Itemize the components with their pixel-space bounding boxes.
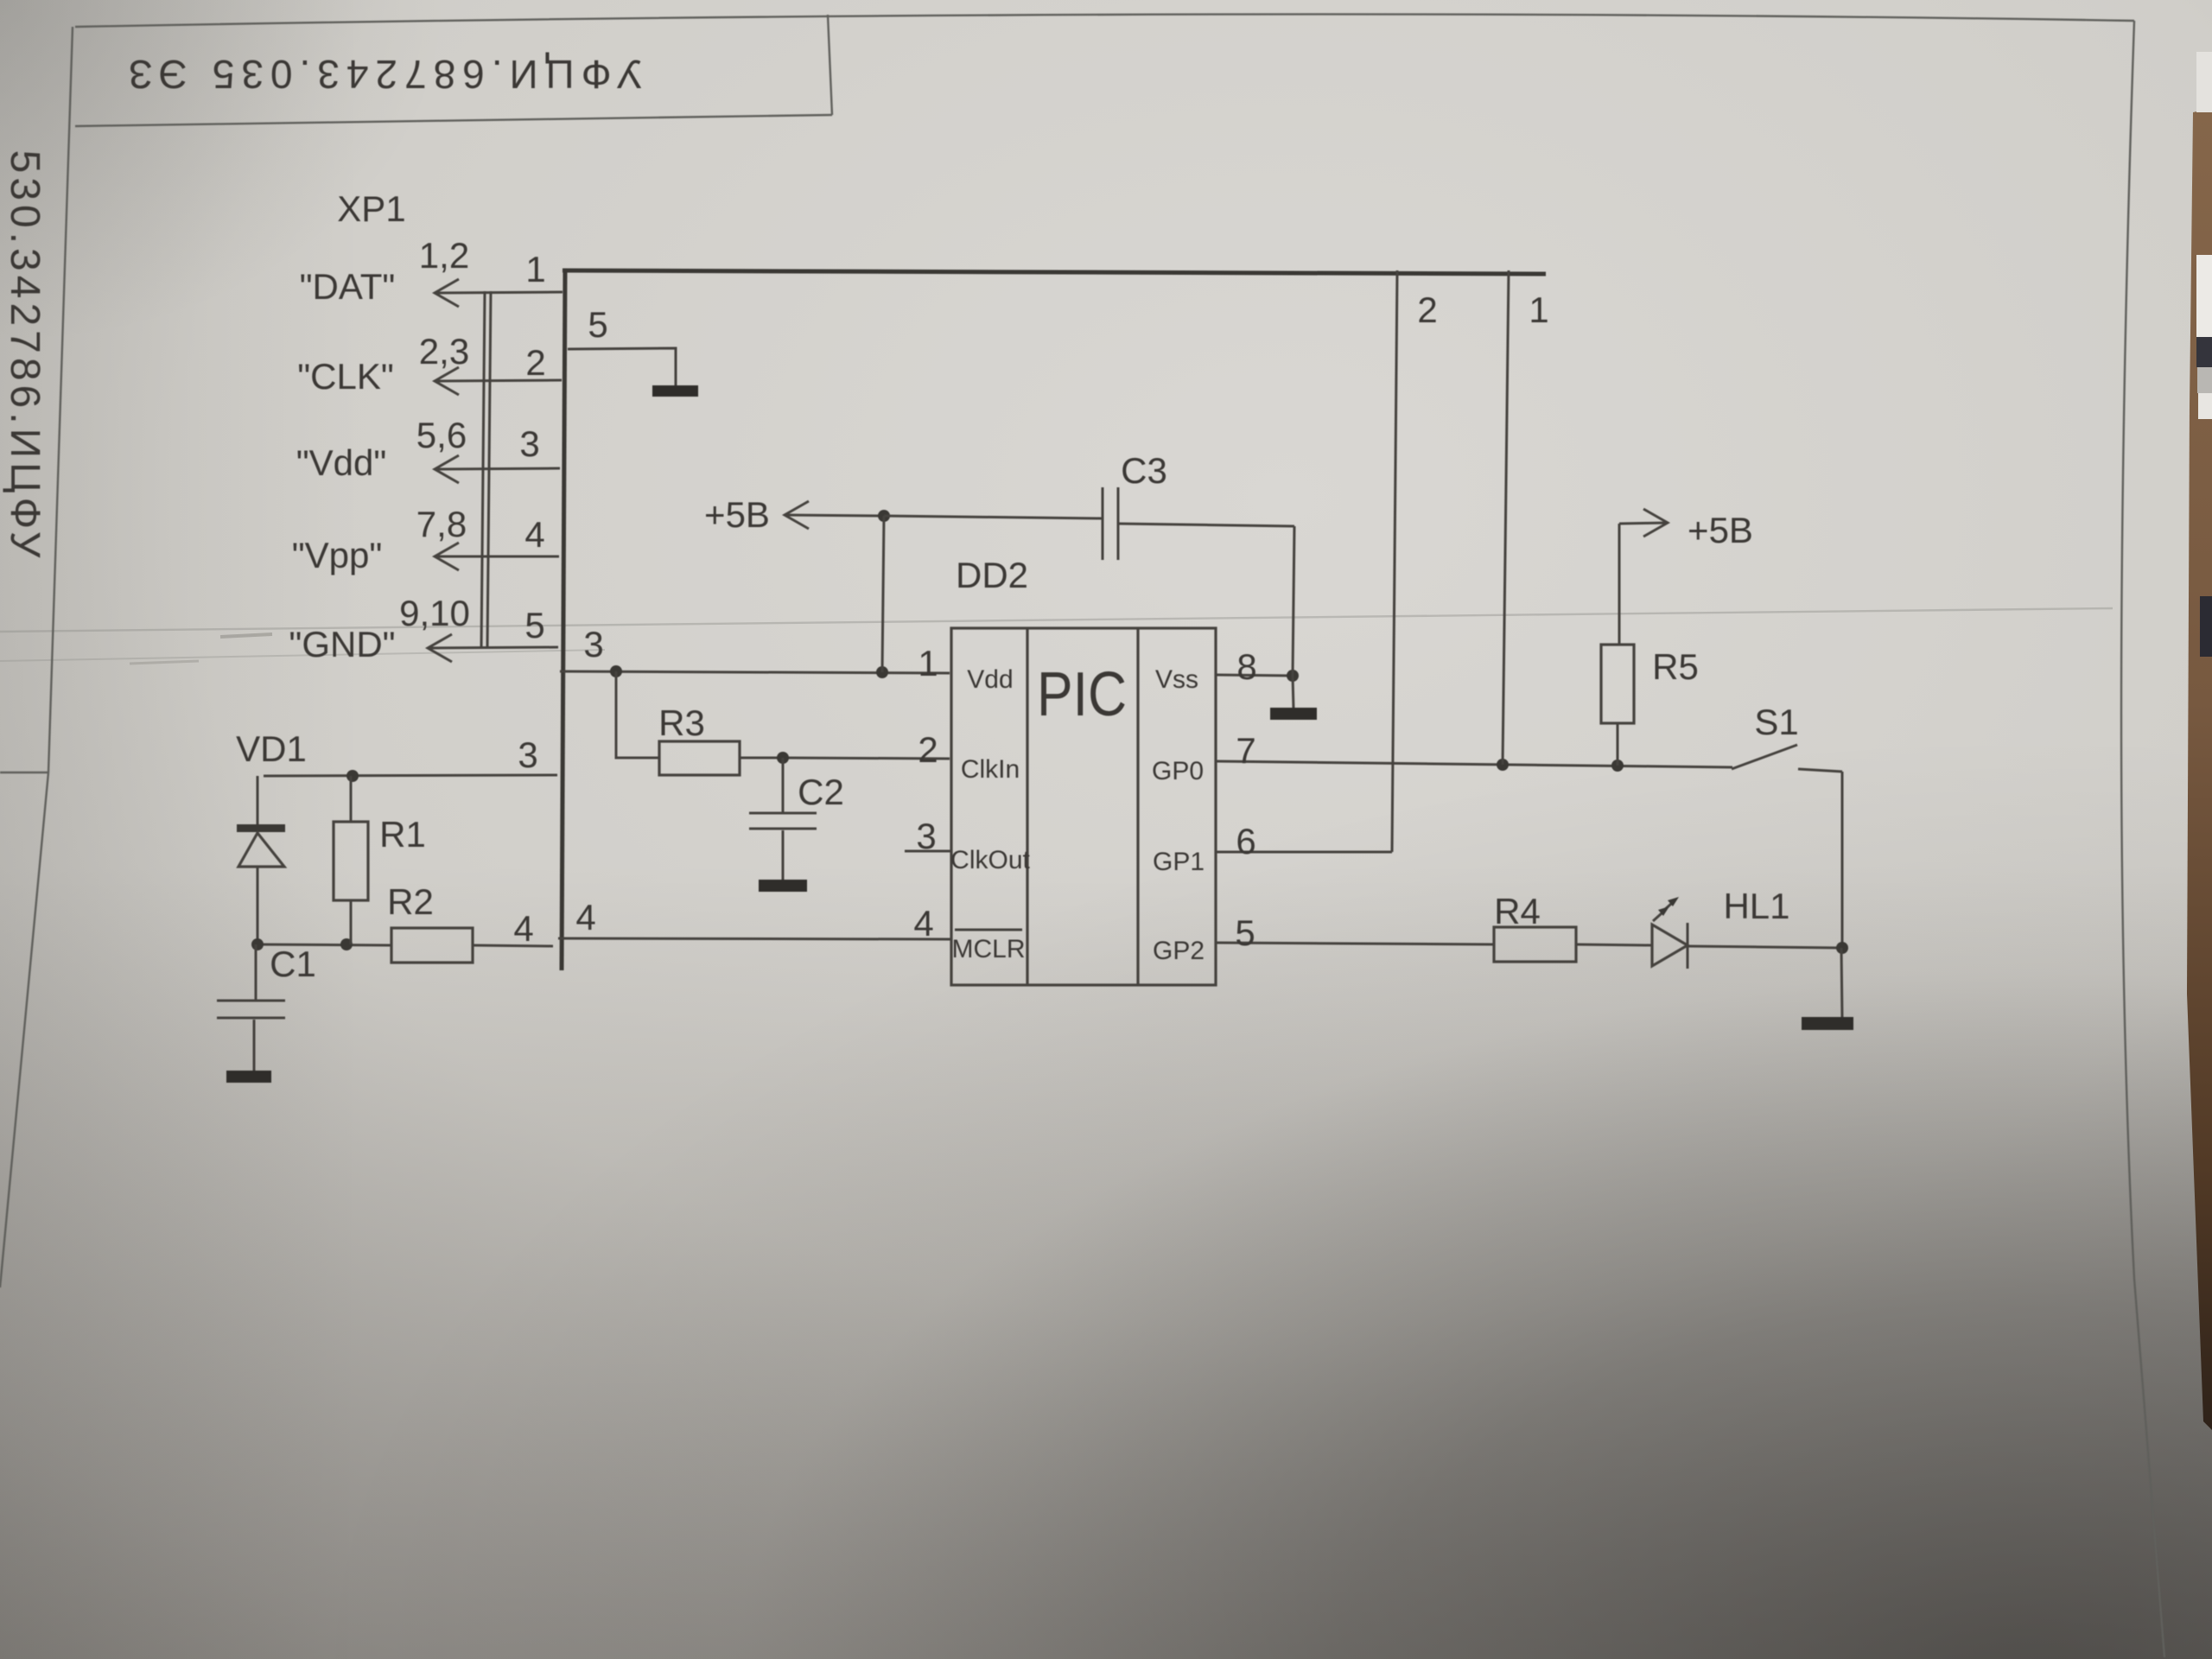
wire C3 right down to Vss xyxy=(1293,526,1294,676)
XP1 pin 3 wire "Vdd" xyxy=(435,455,560,483)
diode VD1 xyxy=(237,776,285,944)
wire ClkIn (net to PIC pin 2) xyxy=(783,758,950,759)
pin name MCLR with overline xyxy=(951,930,1025,963)
svg-text:"Vpp": "Vpp" xyxy=(292,535,383,575)
svg-text:4: 4 xyxy=(575,897,595,938)
svg-text:Vdd: Vdd xyxy=(967,665,1013,694)
svg-text:R2: R2 xyxy=(387,881,434,922)
svg-text:R3: R3 xyxy=(658,702,705,743)
junction +5V node xyxy=(878,510,890,522)
switch S1 xyxy=(1732,745,1842,947)
svg-text:Vss: Vss xyxy=(1155,665,1198,694)
bottom node wire (VD1/R1/R2 row, net 4) xyxy=(257,944,391,945)
svg-text:HL1: HL1 xyxy=(1723,886,1789,926)
svg-text:7: 7 xyxy=(1236,730,1255,771)
ground for HL1 xyxy=(1802,948,1853,1030)
svg-text:3: 3 xyxy=(519,423,539,464)
junction net 1 / GP0 xyxy=(1497,759,1509,771)
bus vertical thick line xyxy=(562,270,565,970)
net 3 wire (Vdd row to PIC pin 1) xyxy=(560,671,950,673)
svg-text:R5: R5 xyxy=(1652,646,1699,687)
svg-text:R4: R4 xyxy=(1494,891,1541,931)
resistor R1 xyxy=(334,776,368,944)
junction R1 bottom xyxy=(340,938,353,950)
crease lines xyxy=(0,608,2113,632)
svg-text:530.342786.ИЦФУ: 530.342786.ИЦФУ xyxy=(2,150,48,563)
wire +5V node down to Vdd row xyxy=(882,516,884,672)
+5V arrow (left) xyxy=(785,501,884,529)
net 5 stub wire xyxy=(568,348,676,386)
svg-text:C3: C3 xyxy=(1121,450,1167,491)
svg-text:4: 4 xyxy=(524,514,544,555)
svg-text:S1: S1 xyxy=(1754,702,1798,742)
svg-text:"GND": "GND" xyxy=(289,624,395,664)
svg-text:1: 1 xyxy=(525,249,545,289)
ground for C1 xyxy=(226,1071,271,1083)
svg-text:DD2: DD2 xyxy=(956,555,1028,595)
XP1 pin 4 wire "Vpp" xyxy=(435,543,559,570)
junction VD1 top xyxy=(346,770,359,782)
LED HL1 xyxy=(1652,897,1841,969)
svg-text:VD1: VD1 xyxy=(236,728,307,769)
XP1 pin 5 wire "GND" xyxy=(428,634,558,662)
connector XP1 body (double line) xyxy=(481,291,491,648)
svg-text:XP1: XP1 xyxy=(337,188,405,229)
svg-text:+5B: +5B xyxy=(1688,510,1753,550)
svg-text:6: 6 xyxy=(1236,821,1255,861)
svg-text:УФЦИ.687243.035 ЭЗ: УФЦИ.687243.035 ЭЗ xyxy=(122,52,643,97)
resistor R4 xyxy=(1494,927,1652,962)
svg-text:5: 5 xyxy=(588,304,607,345)
svg-text:5: 5 xyxy=(1235,912,1255,953)
junction C2 top xyxy=(777,752,789,764)
svg-text:C1: C1 xyxy=(270,944,316,984)
svg-text:C2: C2 xyxy=(798,772,844,812)
net 3 wire to VD1 group xyxy=(264,775,557,776)
svg-text:2,3: 2,3 xyxy=(419,331,469,372)
MCLR wire (net 4 to PIC pin 4) xyxy=(558,938,951,939)
GP2 wire (PIC pin 5 to R4) xyxy=(1216,943,1494,944)
junction C1 top xyxy=(251,938,264,950)
Vss wire (PIC pin 8) xyxy=(1216,675,1293,676)
svg-text:7,8: 7,8 xyxy=(416,504,467,544)
svg-text:GP1: GP1 xyxy=(1153,848,1205,876)
svg-text:5: 5 xyxy=(524,605,544,645)
svg-text:3: 3 xyxy=(916,816,936,856)
net 1 vertical wire xyxy=(1503,270,1509,765)
capacitor C2 xyxy=(749,758,817,880)
junction Vss node xyxy=(1287,670,1299,682)
ground for net 5 xyxy=(652,385,698,397)
capacitor C3 xyxy=(1103,487,1294,560)
ground for C2 xyxy=(759,880,807,892)
svg-text:MCLR: MCLR xyxy=(951,935,1025,963)
junction R3 tap xyxy=(610,665,622,677)
junction HL1 / S1 node xyxy=(1836,942,1848,954)
svg-text:ClkIn: ClkIn xyxy=(961,755,1020,784)
svg-text:4: 4 xyxy=(913,903,933,944)
resistor R3 xyxy=(616,671,783,775)
svg-text:3: 3 xyxy=(583,624,603,664)
svg-text:3: 3 xyxy=(518,734,537,775)
wire +5V node to C3 xyxy=(884,516,1102,518)
svg-text:2: 2 xyxy=(1417,289,1437,330)
svg-text:4: 4 xyxy=(513,908,533,949)
svg-text:PIC: PIC xyxy=(1037,660,1127,729)
svg-text:GP0: GP0 xyxy=(1152,757,1204,785)
capacitor C1 xyxy=(217,944,285,1071)
IC DD2 PIC box xyxy=(951,628,1216,985)
svg-text:1,2: 1,2 xyxy=(419,235,469,276)
resistor R5 xyxy=(1601,524,1634,766)
table wood edge xyxy=(2187,108,2212,1430)
svg-text:ClkOut: ClkOut xyxy=(950,846,1030,874)
svg-text:8: 8 xyxy=(1236,646,1256,687)
svg-text:1: 1 xyxy=(918,643,938,683)
svg-text:"Vdd": "Vdd" xyxy=(296,442,387,483)
svg-text:9,10: 9,10 xyxy=(399,593,470,633)
junction R5 / GP0 xyxy=(1611,760,1624,772)
GP1 wire (PIC pin 6 to net 2) xyxy=(1216,851,1392,854)
svg-text:"CLK": "CLK" xyxy=(297,356,394,397)
svg-text:1: 1 xyxy=(1529,289,1548,330)
svg-text:R1: R1 xyxy=(379,814,426,855)
svg-text:"DAT": "DAT" xyxy=(300,266,396,307)
resistor R2 xyxy=(391,928,553,963)
svg-text:GP2: GP2 xyxy=(1153,937,1205,965)
XP1 pin 1 wire "DAT" xyxy=(435,279,563,307)
ground for Vss xyxy=(1270,676,1317,720)
net 2 vertical wire xyxy=(1392,270,1397,852)
GP0 wire (PIC pin 7 to S1) xyxy=(1216,761,1732,767)
svg-text:2: 2 xyxy=(918,729,938,770)
svg-text:5,6: 5,6 xyxy=(416,415,467,455)
XP1 pin 2 wire "CLK" xyxy=(435,367,562,395)
svg-text:+5B: +5B xyxy=(704,494,770,535)
junction +5V tap xyxy=(876,666,888,678)
bus horizontal thick line (net 1) xyxy=(563,270,1546,274)
svg-text:2: 2 xyxy=(525,342,545,383)
ClkOut stub wire pin 3 xyxy=(905,850,951,853)
+5V arrow (right) xyxy=(1619,509,1668,537)
